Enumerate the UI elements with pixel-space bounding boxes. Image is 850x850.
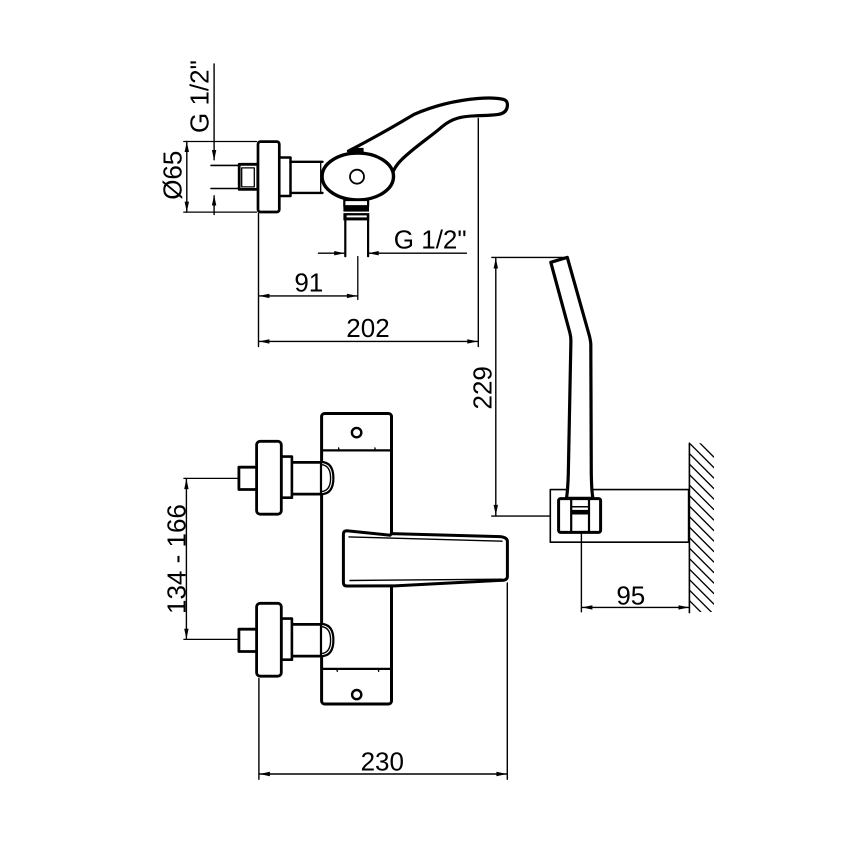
svg-text:229: 229: [468, 366, 498, 409]
wall flange (escutcheon, side view): [258, 142, 279, 212]
wall line: [688, 443, 690, 612]
dim 230 left extension: [258, 679, 260, 780]
top inlet: dome nut over plate: [321, 462, 333, 494]
dim Ø65 extension lines: [184, 142, 257, 213]
dim 134-166 extensions: [184, 478, 239, 639]
svg-text:G 1/2": G 1/2": [394, 224, 467, 254]
top inlet: nut: [281, 457, 292, 498]
bottom inlet: eccentric disc: [257, 603, 282, 676]
square nut on inlet stub: [239, 164, 258, 189]
dim 229 bottom extension: [492, 515, 558, 517]
outlet thread band 2 (black with stripe): [343, 213, 369, 220]
dim 95 line: [582, 606, 689, 608]
center screw circle: [350, 170, 364, 184]
body plate: [322, 414, 392, 705]
divider ticks: [337, 448, 379, 672]
outlet thread band 1 (black): [343, 206, 369, 211]
hose connector in bracket: [559, 499, 601, 533]
bottom inlet: connector tube: [292, 624, 322, 656]
dim G1/2 top (vertical leader with arrows): [213, 64, 215, 215]
bottom inlet: nut: [281, 619, 292, 660]
dim 91 line: [259, 295, 358, 297]
dim 230 right extension: [506, 583, 508, 779]
dim 229 top extension: [492, 256, 567, 258]
dim 202 shared left extension: [258, 214, 260, 347]
handle lever: [349, 98, 508, 175]
collar behind body: [279, 158, 290, 197]
svg-text:202: 202: [346, 313, 389, 343]
svg-text:Ø65: Ø65: [158, 151, 188, 200]
dim 230 line: [259, 773, 507, 775]
thread stub G1/2 (side view lines): [211, 165, 240, 188]
wall bracket plate: [550, 490, 688, 543]
handle hinge block: [351, 148, 364, 154]
top inlet: connector tube: [292, 462, 322, 494]
hand shower wand: [551, 257, 593, 498]
bottom inlet: square nut: [239, 629, 257, 651]
svg-text:134 - 166: 134 - 166: [162, 504, 192, 614]
outlet collar (white band): [344, 200, 368, 206]
outlet pipe down: [345, 220, 368, 256]
svg-text:95: 95: [616, 581, 645, 611]
dim 229 line: [495, 258, 497, 515]
svg-text:G 1/2": G 1/2": [185, 60, 215, 133]
dim 202 right extension (from handle tip): [477, 119, 479, 347]
plate divider bottom: [322, 668, 392, 670]
screw hole top: [352, 428, 361, 437]
svg-text:91: 91: [294, 267, 323, 297]
dim 202 line: [259, 340, 478, 342]
top inlet: square nut: [239, 467, 257, 489]
bottom inlet: dome nut over plate: [321, 624, 333, 656]
connecting pipe: [291, 162, 323, 193]
plate divider top: [322, 449, 392, 451]
top inlet: eccentric disc: [257, 441, 282, 514]
body (cartridge housing, ellipse): [322, 153, 393, 200]
dim Ø65 line with arrows: [186, 142, 188, 213]
dim 95 left extension: [580, 533, 582, 612]
dim 91 extension (outlet centerline): [357, 257, 359, 300]
svg-text:230: 230: [361, 746, 404, 776]
dim G1/2 bottom (outlet thread): [319, 252, 467, 254]
wall hatching: [689, 433, 713, 625]
dim 134-166 line: [185, 479, 187, 640]
screw hole bottom: [352, 690, 361, 699]
spout (front view): [343, 531, 507, 586]
